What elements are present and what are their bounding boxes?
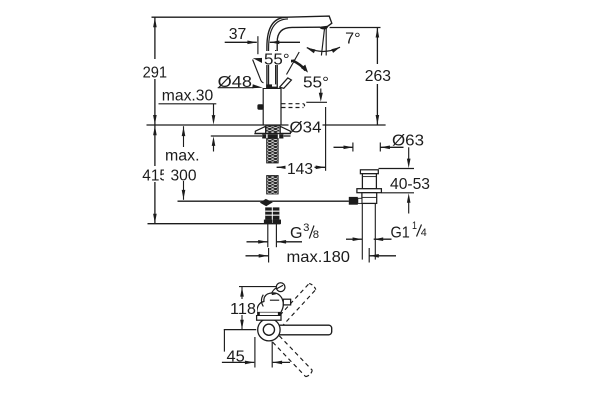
svg-text:3: 3 (303, 222, 309, 234)
svg-text:55°: 55° (264, 51, 290, 68)
svg-text:118: 118 (230, 301, 256, 318)
svg-text:263: 263 (365, 68, 391, 85)
svg-text:G1: G1 (391, 225, 410, 242)
svg-text:40-53: 40-53 (390, 176, 430, 193)
svg-text:max.30: max.30 (162, 87, 213, 104)
svg-text:Ø34: Ø34 (290, 119, 322, 136)
svg-text:291: 291 (143, 64, 168, 81)
svg-text:300: 300 (171, 167, 197, 184)
svg-text:8: 8 (313, 229, 319, 241)
svg-text:max.180: max.180 (287, 249, 351, 266)
svg-text:55°: 55° (303, 74, 329, 91)
svg-text:37: 37 (229, 26, 247, 43)
svg-text:max.: max. (165, 148, 200, 165)
svg-text:7°: 7° (345, 31, 361, 48)
svg-text:G: G (290, 225, 303, 242)
svg-text:4: 4 (421, 227, 427, 239)
svg-text:1: 1 (412, 220, 417, 232)
svg-text:143: 143 (287, 161, 313, 178)
svg-text:45: 45 (227, 349, 245, 366)
